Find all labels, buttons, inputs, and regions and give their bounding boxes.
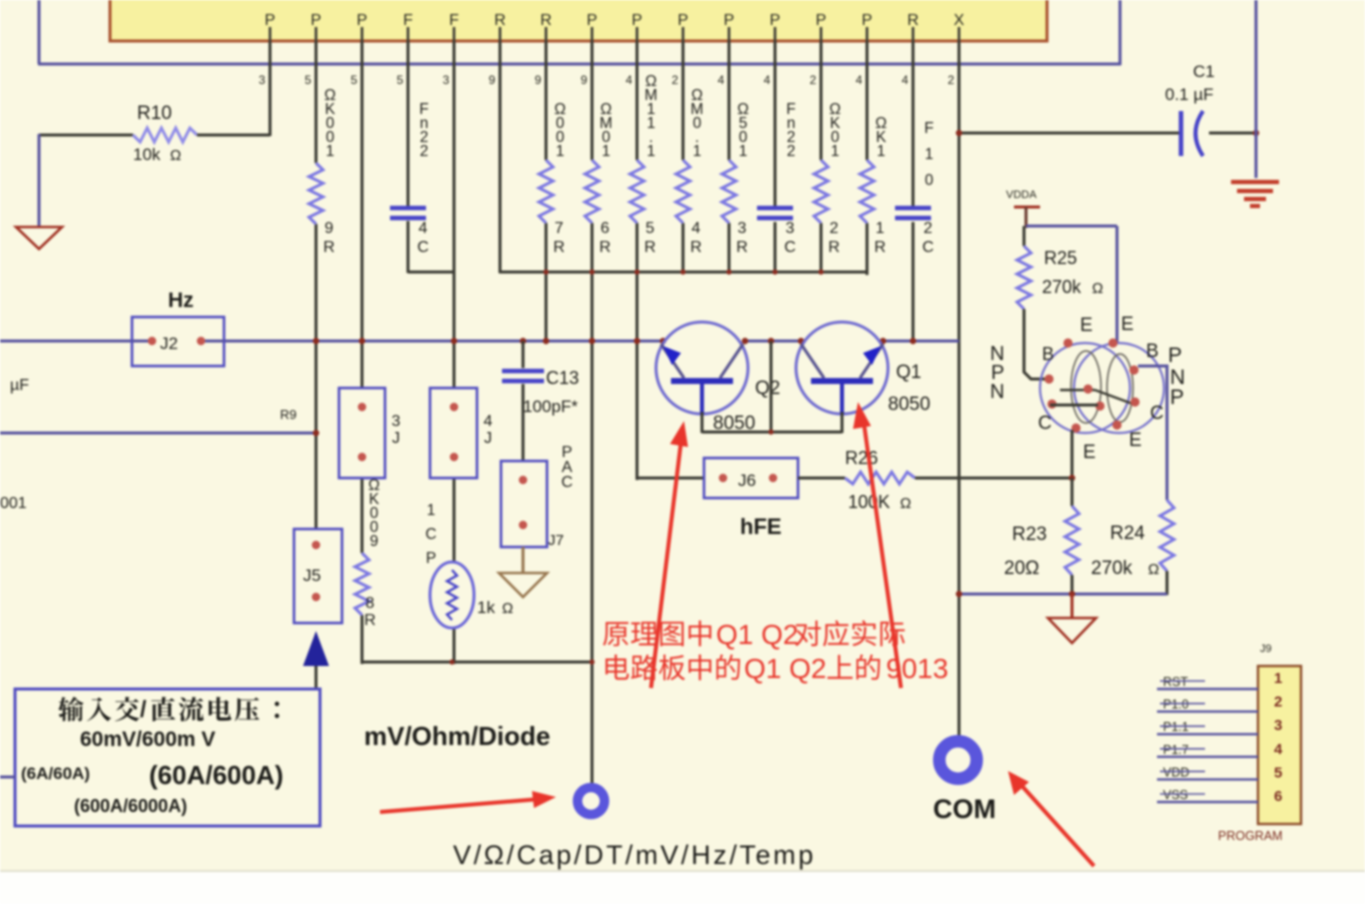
svg-text:P: P <box>265 12 276 29</box>
wire pin11 column <box>728 41 731 273</box>
svg-text:P: P <box>678 12 689 29</box>
svg-text:1: 1 <box>831 143 840 160</box>
svg-text:100pF*: 100pF* <box>523 397 578 416</box>
label CAP <box>561 444 573 491</box>
socket pin labels <box>1038 314 1159 463</box>
svg-text:J5: J5 <box>303 566 321 585</box>
wire pin12 column <box>774 41 777 273</box>
svg-text:mV/Ohm/Diode: mV/Ohm/Diode <box>364 721 550 751</box>
wire pin6 column <box>499 41 502 273</box>
svg-text:P: P <box>426 550 436 567</box>
wire: emitter rail under Q1/Q2 <box>702 341 842 435</box>
svg-text:1: 1 <box>925 146 934 163</box>
svg-text:R26: R26 <box>845 448 878 468</box>
svg-text:1: 1 <box>693 143 702 160</box>
svg-text:VDDA: VDDA <box>1006 189 1037 201</box>
svg-text:J: J <box>392 430 400 447</box>
svg-text:8050: 8050 <box>888 394 930 415</box>
svg-text:4: 4 <box>419 220 428 237</box>
wire: hFE net left drop <box>637 477 704 480</box>
svg-text:hFE: hFE <box>740 514 782 539</box>
svg-text:B: B <box>1042 344 1054 364</box>
svg-text:R: R <box>553 239 565 256</box>
capacitor C2 <box>895 120 934 256</box>
svg-text:R: R <box>323 239 335 256</box>
svg-text:P1.0: P1.0 <box>1163 698 1189 712</box>
svg-text:R10: R10 <box>137 103 172 124</box>
svg-text:0: 0 <box>925 172 934 189</box>
wire: R10 to ground <box>38 134 41 226</box>
svg-text:P: P <box>632 12 643 29</box>
cut label 001 (left edge) <box>0 495 27 512</box>
red arrow to COM terminal <box>1008 771 1094 866</box>
svg-text:2: 2 <box>420 143 429 160</box>
svg-text:J6: J6 <box>738 471 756 490</box>
red arrow to Q2 <box>651 421 688 688</box>
svg-text:R25: R25 <box>1044 248 1077 268</box>
svg-text:9: 9 <box>489 73 496 87</box>
svg-text:R: R <box>364 612 376 629</box>
svg-text:Ω: Ω <box>900 495 911 512</box>
terminal ring V/ohm <box>578 788 605 815</box>
svg-text:Hz: Hz <box>168 289 194 312</box>
svg-text:1: 1 <box>1274 670 1282 687</box>
svg-text:V/Ω/Cap/DT/mV/Hz/Temp: V/Ω/Cap/DT/mV/Hz/Temp <box>453 840 816 870</box>
svg-text:E: E <box>1129 430 1142 451</box>
svg-text:9: 9 <box>370 533 379 550</box>
svg-text:R9: R9 <box>280 407 297 422</box>
transistor Q2 <box>656 322 780 434</box>
resistor R3 <box>722 101 749 256</box>
ground (below J7, tan open triangle) <box>499 547 547 597</box>
red annotation text line 2 <box>606 653 949 684</box>
svg-text:3: 3 <box>443 73 450 87</box>
svg-text:1: 1 <box>877 143 886 160</box>
svg-text:4: 4 <box>718 73 725 87</box>
svg-text:2: 2 <box>672 73 679 87</box>
wire pin16 column (runs to COM terminal) <box>958 41 961 737</box>
wire: socket B-right to R24 column <box>1138 366 1167 500</box>
svg-text:100K: 100K <box>848 492 890 512</box>
svg-text:2: 2 <box>810 73 817 87</box>
svg-text:P: P <box>311 12 322 29</box>
power VDDA <box>1006 189 1040 228</box>
label COM <box>933 794 996 824</box>
ground (top-left, open triangle) <box>16 227 62 249</box>
svg-text:P1.1: P1.1 <box>1163 720 1189 734</box>
junction dots on Hz bus <box>313 338 916 344</box>
terminal ring COM <box>939 741 976 778</box>
jumper J5 <box>294 529 342 623</box>
svg-text:6: 6 <box>601 220 610 237</box>
svg-text:R: R <box>494 12 506 29</box>
svg-text:9: 9 <box>325 220 334 237</box>
wire: blue bus under chip from top-left corner <box>38 0 1121 65</box>
wire: bottom-right rail <box>956 591 1167 597</box>
resistor R9 <box>309 87 336 256</box>
socket pads <box>1044 338 1139 432</box>
label PNP <box>1168 344 1185 409</box>
svg-text:3: 3 <box>786 220 795 237</box>
svg-text:C: C <box>561 474 573 491</box>
svg-text:1k: 1k <box>477 598 495 617</box>
svg-text:J7: J7 <box>548 532 564 549</box>
svg-text:P: P <box>1170 386 1184 409</box>
wire: VDDA loop to socket E pin <box>1026 226 1117 344</box>
jumper J2 <box>132 317 224 366</box>
svg-text:E: E <box>1121 314 1134 335</box>
svg-text:C: C <box>417 239 429 256</box>
svg-text:F: F <box>924 120 933 137</box>
wire pin14 column <box>866 41 869 275</box>
svg-text:4: 4 <box>692 220 701 237</box>
wire pin9 column (runs to hFE wire) <box>636 41 639 480</box>
label NPN <box>990 343 1004 403</box>
svg-text:8: 8 <box>366 595 375 612</box>
svg-text:Q1: Q1 <box>896 362 921 383</box>
svg-text:5: 5 <box>351 73 358 87</box>
svg-text:P: P <box>724 12 735 29</box>
svg-text:P: P <box>1168 344 1182 367</box>
svg-text:J9: J9 <box>1260 643 1272 655</box>
svg-text:X: X <box>954 12 965 29</box>
svg-text:20Ω: 20Ω <box>1004 558 1039 579</box>
wire pin10 column <box>682 41 685 273</box>
wire: R9-net horizontal to J5 column <box>0 432 316 435</box>
resistor R10 <box>39 103 270 164</box>
svg-text:5: 5 <box>305 73 312 87</box>
resistor R2 <box>814 101 841 256</box>
thermistor PC1 <box>425 502 513 628</box>
svg-text:VSS: VSS <box>1163 788 1188 802</box>
svg-text:N: N <box>990 381 1004 403</box>
wire: socket C-left cross link <box>1050 404 1098 407</box>
svg-text:R: R <box>736 239 748 256</box>
svg-text:1: 1 <box>556 143 565 160</box>
wire pin4 column <box>407 41 410 273</box>
svg-text:(60A/600A): (60A/600A) <box>149 760 283 790</box>
resistor R6 <box>585 101 612 256</box>
label hFE <box>740 514 782 539</box>
svg-text:3: 3 <box>738 220 747 237</box>
svg-text:1: 1 <box>876 220 885 237</box>
svg-text:J2: J2 <box>160 334 178 353</box>
earth ground (right of C1) <box>1231 182 1279 206</box>
svg-text:1: 1 <box>326 143 335 160</box>
resistor R26 <box>798 448 1072 512</box>
resistor R1 <box>860 115 887 256</box>
svg-text:4: 4 <box>764 73 771 87</box>
svg-text:P: P <box>587 12 598 29</box>
wire pin15 column <box>912 41 915 342</box>
IC pin stubs with pin numbers <box>259 27 959 87</box>
svg-text:C1: C1 <box>1193 62 1215 81</box>
svg-text:P: P <box>816 12 827 29</box>
jumper J3 <box>339 388 401 478</box>
svg-text:Ω: Ω <box>1092 280 1103 297</box>
wire pin3 column <box>361 41 364 664</box>
svg-text:C: C <box>784 239 796 256</box>
capacitor C3 <box>757 101 796 256</box>
svg-text:5: 5 <box>397 73 404 87</box>
wire stub into input box <box>0 776 15 779</box>
svg-text:F: F <box>449 12 459 29</box>
svg-text:R: R <box>907 12 919 29</box>
svg-text:4: 4 <box>1274 741 1283 758</box>
ground (below R23, open triangle) <box>1048 594 1096 643</box>
wire pin5 column <box>453 41 456 664</box>
svg-text:Q1 Q2: Q1 Q2 <box>744 653 826 684</box>
svg-text:J: J <box>484 430 492 447</box>
svg-text:2: 2 <box>830 220 839 237</box>
wire pin2 column <box>315 41 318 530</box>
svg-text:C: C <box>922 239 934 256</box>
jumper J7 <box>501 461 564 549</box>
resistor R24 <box>1091 500 1174 595</box>
red annotation text line 1 <box>603 619 905 650</box>
wire: right vertical to earth ground <box>1255 0 1258 178</box>
svg-text:R: R <box>690 239 702 256</box>
svg-text:Ω: Ω <box>170 147 181 164</box>
svg-text:µF: µF <box>10 377 29 394</box>
svg-text:4: 4 <box>626 73 633 87</box>
svg-text:9: 9 <box>581 73 588 87</box>
svg-text:/: / <box>140 696 147 722</box>
svg-text:P1.7: P1.7 <box>1163 743 1189 757</box>
junction dots on C1 net <box>956 130 1259 136</box>
svg-text:2: 2 <box>948 73 955 87</box>
connector J9 <box>1218 643 1301 843</box>
label R9 (wire net) <box>280 407 297 422</box>
hFE transistor socket circles <box>1040 343 1164 433</box>
resistor R8 <box>355 477 380 629</box>
capacitor C13 <box>502 341 579 461</box>
svg-text:R24: R24 <box>1110 523 1145 544</box>
svg-text:0.1 µF: 0.1 µF <box>1165 85 1214 104</box>
capacitor C1 <box>1165 62 1215 156</box>
svg-text:(6A/60A): (6A/60A) <box>21 764 90 783</box>
svg-text:R: R <box>644 239 656 256</box>
svg-text:VDD: VDD <box>1163 765 1189 779</box>
jumper J4 <box>430 388 493 478</box>
IC U1 pin name letters (rotated, cropped) <box>265 12 965 29</box>
svg-text:P: P <box>357 12 368 29</box>
svg-text:270k: 270k <box>1042 277 1082 297</box>
IC U1 (LCD driver chip body) <box>110 0 1047 41</box>
svg-text:4: 4 <box>902 73 909 87</box>
svg-text:6: 6 <box>1274 788 1282 805</box>
wire: bottom rail of J3/PC1 subcircuit <box>362 659 595 664</box>
resistor R23 <box>1004 478 1079 595</box>
svg-text:C: C <box>1038 413 1052 434</box>
input voltage box <box>15 689 320 826</box>
svg-text:2: 2 <box>924 220 933 237</box>
label Hz <box>168 289 194 312</box>
svg-text:1: 1 <box>427 502 436 519</box>
J9 net stub wires and labels <box>1157 675 1258 802</box>
svg-text:E: E <box>1083 442 1096 463</box>
junction dots on resistor rail <box>543 269 823 274</box>
wire: C4 bottom link <box>408 271 454 274</box>
svg-text:270k: 270k <box>1091 558 1133 579</box>
svg-text:Ω: Ω <box>502 600 513 617</box>
svg-text:9: 9 <box>535 73 542 87</box>
cut label uF (left edge) <box>10 377 29 394</box>
svg-text:Q2: Q2 <box>755 378 780 399</box>
svg-text:(600A/6000A): (600A/6000A) <box>74 796 187 816</box>
svg-text:4: 4 <box>856 73 863 87</box>
svg-text:60mV/600m V: 60mV/600m V <box>80 728 215 751</box>
label mV/Ohm/Diode <box>364 721 550 751</box>
svg-text:COM: COM <box>933 794 996 824</box>
svg-text:P: P <box>770 12 781 29</box>
svg-text:10k: 10k <box>133 145 161 164</box>
wire pin7 column <box>545 41 548 342</box>
wire pin13 column <box>820 41 823 273</box>
svg-text:3: 3 <box>1274 717 1282 734</box>
svg-text:1: 1 <box>647 143 656 160</box>
svg-text:5: 5 <box>1274 764 1282 781</box>
label V/ohm/Cap/DT/mV/Hz/Temp <box>453 840 816 870</box>
svg-text:2: 2 <box>1274 694 1282 711</box>
resistor R5 <box>630 73 657 256</box>
svg-text:R: R <box>828 239 840 256</box>
red arrow to Q1 <box>853 402 901 688</box>
svg-text:E: E <box>1080 315 1093 336</box>
svg-text:1: 1 <box>739 143 748 160</box>
svg-text:5: 5 <box>646 220 655 237</box>
wire: socket E-bottom down to R23 <box>1069 430 1075 481</box>
svg-text:Q1 Q2: Q1 Q2 <box>716 619 798 650</box>
svg-text:4: 4 <box>484 413 493 430</box>
svg-text:2: 2 <box>787 143 796 160</box>
svg-text:R: R <box>599 239 611 256</box>
svg-text:RST: RST <box>1163 675 1188 689</box>
svg-text:C: C <box>1150 403 1164 424</box>
svg-text:PROGRAM: PROGRAM <box>1218 829 1283 843</box>
blue arrow into J5 <box>303 631 329 690</box>
svg-text:R: R <box>874 239 886 256</box>
svg-text:C: C <box>425 526 436 543</box>
junction dot R9 wire <box>313 430 319 436</box>
wire: C1 net <box>959 132 1256 135</box>
red arrow to V/ohm terminal <box>380 791 556 812</box>
svg-text:001: 001 <box>0 495 27 512</box>
svg-text:R23: R23 <box>1012 524 1047 545</box>
wire: resistor-bottom rail <box>499 271 868 274</box>
svg-text:1: 1 <box>602 143 611 160</box>
svg-text:3: 3 <box>392 413 401 430</box>
svg-text:R: R <box>540 12 552 29</box>
wire pin8 column (runs to V/ohm terminal) <box>591 41 594 784</box>
svg-text:C13: C13 <box>546 368 579 388</box>
label C (right socket) <box>1150 403 1164 424</box>
transistor Q1 <box>796 322 930 433</box>
svg-text:7: 7 <box>555 220 564 237</box>
wire pin1 column <box>269 41 272 136</box>
svg-text:Ω: Ω <box>1148 561 1159 578</box>
resistor R4 <box>676 87 703 256</box>
svg-text:P: P <box>862 12 873 29</box>
capacitor C4 <box>390 101 429 256</box>
jumper J6 <box>704 458 798 498</box>
resistor R7 <box>539 101 566 256</box>
svg-text:B: B <box>1146 341 1159 362</box>
svg-text:3: 3 <box>259 73 266 87</box>
resistor R25 <box>1017 226 1103 379</box>
svg-text:F: F <box>403 12 413 29</box>
wire: main Hz bus <box>0 340 959 343</box>
